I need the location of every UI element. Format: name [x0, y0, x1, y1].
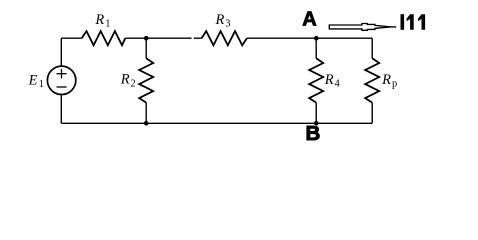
svg-text:1: 1 [39, 79, 44, 90]
svg-text:B: B [306, 122, 321, 145]
svg-text:R: R [324, 72, 334, 88]
svg-text:1: 1 [105, 19, 110, 30]
svg-text:4: 4 [335, 79, 341, 90]
svg-text:2: 2 [131, 78, 136, 89]
svg-text:R: R [94, 12, 104, 28]
svg-text:p: p [392, 79, 397, 90]
svg-text:A: A [302, 8, 316, 30]
svg-text:E: E [28, 72, 38, 88]
svg-text:R: R [120, 72, 130, 88]
svg-text:R: R [215, 12, 225, 28]
svg-text:3: 3 [225, 19, 230, 30]
svg-text:R: R [381, 72, 391, 88]
